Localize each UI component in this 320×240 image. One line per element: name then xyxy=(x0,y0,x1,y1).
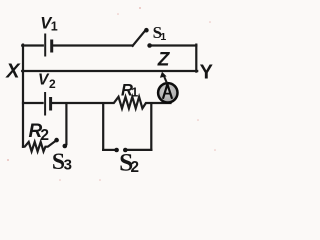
svg-text:X: X xyxy=(5,61,21,83)
svg-text:1: 1 xyxy=(160,31,166,43)
svg-text:Y: Y xyxy=(200,62,214,84)
svg-text:1: 1 xyxy=(51,20,58,34)
svg-text:2: 2 xyxy=(40,127,49,144)
svg-text:2: 2 xyxy=(131,159,140,176)
svg-text:1: 1 xyxy=(131,86,138,100)
svg-text:2: 2 xyxy=(49,77,56,91)
svg-text:3: 3 xyxy=(64,157,72,174)
svg-text:Z: Z xyxy=(157,50,171,71)
